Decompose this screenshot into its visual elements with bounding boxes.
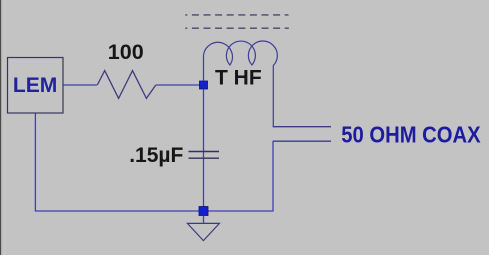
transformer secondary (dashed lines) row 1 xyxy=(185,14,288,16)
ground GND xyxy=(187,223,219,240)
wire LEM bottom down left rail xyxy=(34,114,36,212)
wire coax bottom plate down to bottom rail xyxy=(272,141,274,211)
inductor T HF primary winding xyxy=(204,41,278,127)
wire LEM to resistor R1 xyxy=(64,84,98,86)
capacitor C1 plate top xyxy=(189,151,220,153)
svg-text:100: 100 xyxy=(108,40,144,64)
block U1 LEM xyxy=(8,58,64,114)
svg-text:.15µF: .15µF xyxy=(129,144,183,167)
wire node A down to capacitor C1 and bottom node B xyxy=(203,89,205,207)
capacitor C1 plate bottom xyxy=(189,157,220,159)
resistor R1 xyxy=(97,71,156,99)
coax connector plate bottom xyxy=(273,140,331,142)
transformer secondary (dashed lines) row 2 xyxy=(185,27,288,29)
node A (junction square) xyxy=(200,81,208,89)
wire node B to ground stub xyxy=(203,216,205,224)
svg-text:50 OHM COAX: 50 OHM COAX xyxy=(341,121,481,148)
wire bottom rail xyxy=(35,210,274,212)
svg-text:T HF: T HF xyxy=(215,67,262,90)
svg-text:LEM: LEM xyxy=(13,73,57,97)
wire resistor R1 to node A xyxy=(156,84,200,86)
coax connector plate top xyxy=(273,126,331,128)
window left edge xyxy=(0,0,1,255)
node B (ground junction square) xyxy=(199,207,208,216)
